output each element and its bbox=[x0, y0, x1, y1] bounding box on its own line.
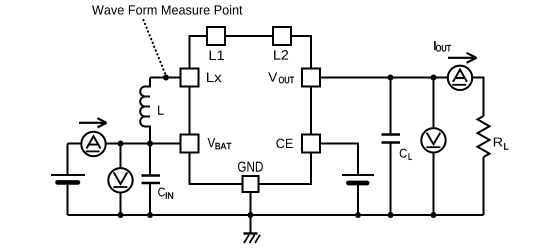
label CIN bbox=[158, 187, 165, 196]
node: V1 branch junction top bbox=[118, 141, 124, 147]
wire: Lx top to L1 left bbox=[190, 36, 208, 69]
node: CL branch junction top bbox=[388, 75, 394, 81]
wire: L2 to VOUT top bbox=[291, 36, 311, 69]
pin box Lx bbox=[181, 69, 199, 87]
battery B2 bbox=[342, 174, 374, 176]
label CE bbox=[276, 139, 293, 148]
pin box CE bbox=[302, 135, 320, 153]
wire: RL to bottom rail bbox=[483, 157, 485, 215]
inductor L bbox=[140, 78, 150, 144]
label VOUT bbox=[268, 72, 277, 81]
label L bbox=[158, 105, 164, 114]
wire: junction to capacitor CIN bbox=[149, 144, 151, 176]
capacitor CL bbox=[382, 133, 401, 136]
label IOUT bbox=[434, 41, 436, 50]
wire: left rail to ammeter A1 bbox=[68, 143, 82, 145]
label L2 bbox=[274, 50, 288, 60]
dotted leader line to measure point bbox=[143, 20, 165, 75]
wire: CE pin to battery B2 bbox=[320, 144, 358, 176]
node: GND bottom junction bbox=[248, 212, 254, 218]
wire: GND pin to ground bbox=[250, 192, 252, 234]
wire: IC bottom left (VBAT to GND box) bbox=[190, 153, 243, 185]
node: L / CIN branch junction top bbox=[147, 141, 153, 147]
input current arrow bbox=[79, 118, 107, 127]
bottom ground rail bbox=[68, 214, 484, 216]
capacitor CIN bbox=[142, 174, 161, 177]
label: Wave Form Measure Point bbox=[92, 5, 243, 15]
node: V2 branch junction top bbox=[431, 75, 437, 81]
pin box GND bbox=[243, 176, 259, 192]
wire: L1 to L2 bbox=[225, 35, 273, 37]
node: waveform measure point junction bbox=[163, 75, 169, 81]
node: CL bottom junction bbox=[388, 212, 394, 218]
wire: left rail down to battery B1 bbox=[67, 144, 69, 176]
wire: VOUT pin to output rail bbox=[320, 77, 448, 79]
pin box VOUT bbox=[302, 69, 320, 87]
node: B2 bottom junction bbox=[355, 212, 361, 218]
wire: CIN to bottom rail bbox=[149, 184, 151, 216]
label GND bbox=[238, 161, 263, 171]
pin box VBAT bbox=[181, 135, 199, 153]
wire: ammeter A2 to load corner bbox=[472, 78, 483, 117]
ground bbox=[244, 232, 258, 234]
label CL bbox=[400, 149, 407, 158]
voltmeter V1 bbox=[108, 168, 132, 192]
voltmeter V2 bbox=[421, 128, 445, 152]
inductor box L2 bbox=[273, 27, 291, 45]
wire: V2 to bottom rail bbox=[433, 153, 435, 216]
node: CIN bottom junction bbox=[147, 212, 153, 218]
resistor RL bbox=[478, 116, 490, 157]
label RL bbox=[494, 138, 503, 147]
wire: CL top branch bbox=[390, 78, 392, 135]
ammeter A1 bbox=[81, 132, 105, 156]
wire: junction to voltmeter V1 bbox=[120, 144, 122, 169]
wire: battery B1 to bottom rail bbox=[67, 183, 69, 215]
node: V1 bottom junction bbox=[118, 212, 124, 218]
wire: battery B2 to bottom rail bbox=[357, 184, 359, 216]
wire: voltmeter V1 to bottom rail bbox=[120, 193, 122, 216]
output current arrow bbox=[448, 53, 477, 63]
ammeter A2 bbox=[448, 66, 472, 90]
battery B1 bbox=[51, 174, 85, 176]
wire: node to Lx pin bbox=[166, 77, 181, 79]
wire: node to coil corner bbox=[150, 77, 166, 79]
inductor box L1 bbox=[207, 27, 225, 45]
label L1 bbox=[210, 51, 224, 60]
label VBAT bbox=[208, 138, 216, 147]
wire: IC bottom right (CE to GND box) bbox=[259, 153, 312, 185]
wire: ammeter A1 to VBAT pin bbox=[106, 143, 181, 145]
wire: V2 top branch bbox=[433, 78, 435, 129]
label Lx bbox=[207, 73, 222, 82]
node: V2 bottom junction bbox=[431, 212, 437, 218]
wire: CL to bottom rail bbox=[390, 143, 392, 215]
wire: Lx to VBAT (IC left side) bbox=[189, 87, 191, 135]
wire: VOUT to CE (IC right side) bbox=[310, 87, 312, 135]
